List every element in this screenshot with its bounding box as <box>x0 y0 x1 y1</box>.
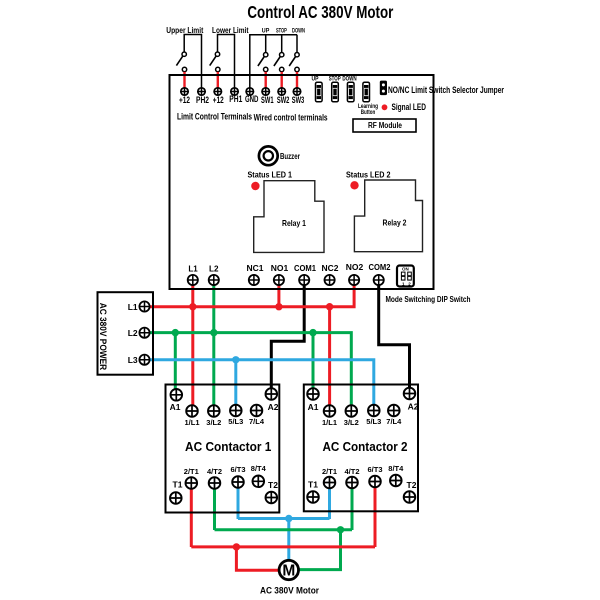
svg-text:Limit Control Terminals: Limit Control Terminals <box>177 112 252 122</box>
svg-text:Wired control terminals: Wired control terminals <box>254 113 328 123</box>
svg-text:7/L4: 7/L4 <box>249 417 265 426</box>
svg-text:Buzzer: Buzzer <box>280 152 300 161</box>
svg-text:RF Module: RF Module <box>368 121 402 130</box>
svg-text:L1: L1 <box>128 302 138 312</box>
svg-text:GND: GND <box>245 94 259 104</box>
svg-text:COM1: COM1 <box>294 263 316 273</box>
svg-text:COM2: COM2 <box>369 262 391 272</box>
svg-text:NO1: NO1 <box>271 263 289 273</box>
svg-text:L2: L2 <box>209 264 219 274</box>
svg-text:PH1: PH1 <box>229 94 242 104</box>
svg-text:1/L1: 1/L1 <box>322 418 337 427</box>
svg-text:4/T2: 4/T2 <box>345 467 360 476</box>
svg-text:SW2: SW2 <box>277 95 290 105</box>
svg-text:+12: +12 <box>179 95 190 105</box>
svg-text:+12: +12 <box>213 95 224 105</box>
svg-text:DOWN: DOWN <box>292 29 305 35</box>
svg-text:Status LED 2: Status LED 2 <box>346 170 391 180</box>
svg-text:AC Contactor 1: AC Contactor 1 <box>185 439 271 454</box>
svg-text:A1: A1 <box>170 402 181 412</box>
svg-text:L3: L3 <box>128 355 138 365</box>
svg-text:Upper Limit: Upper Limit <box>166 26 203 35</box>
svg-text:T1: T1 <box>173 480 183 490</box>
svg-text:T1: T1 <box>308 480 318 490</box>
svg-text:1/L1: 1/L1 <box>185 418 200 427</box>
svg-text:STOP: STOP <box>276 29 287 35</box>
svg-text:A1: A1 <box>308 402 319 412</box>
svg-text:SW1: SW1 <box>261 95 274 105</box>
svg-text:UP: UP <box>262 29 270 35</box>
svg-text:Status LED 1: Status LED 1 <box>248 170 293 180</box>
svg-text:L1: L1 <box>188 264 198 274</box>
svg-text:Relay 1: Relay 1 <box>282 218 306 228</box>
svg-text:2/T1: 2/T1 <box>184 467 199 476</box>
svg-text:Relay 2: Relay 2 <box>383 218 407 228</box>
svg-text:NO2: NO2 <box>346 262 364 272</box>
svg-text:7/L4: 7/L4 <box>386 417 402 426</box>
svg-text:6/T3: 6/T3 <box>231 465 246 474</box>
svg-text:Button: Button <box>361 110 376 116</box>
svg-text:SW3: SW3 <box>292 95 305 105</box>
svg-text:UP: UP <box>312 77 319 83</box>
svg-text:T2: T2 <box>407 480 417 490</box>
svg-text:STOP: STOP <box>329 77 341 83</box>
svg-text:Signal LED: Signal LED <box>392 102 427 112</box>
svg-text:NO/NC Limit Switch Selector Ju: NO/NC Limit Switch Selector Jumper <box>388 85 504 95</box>
svg-text:4/T2: 4/T2 <box>207 467 222 476</box>
svg-text:8/T4: 8/T4 <box>251 464 267 473</box>
svg-text:8/T4: 8/T4 <box>388 464 404 473</box>
svg-text:3/L2: 3/L2 <box>206 418 221 427</box>
svg-text:A2: A2 <box>408 402 419 412</box>
svg-text:5/L3: 5/L3 <box>366 417 381 426</box>
svg-text:Lower Limit: Lower Limit <box>212 26 249 35</box>
svg-text:M: M <box>282 563 295 580</box>
svg-text:3/L2: 3/L2 <box>344 418 359 427</box>
svg-text:2/T1: 2/T1 <box>322 467 337 476</box>
svg-text:A2: A2 <box>268 402 279 412</box>
svg-text:Mode Switching DIP Switch: Mode Switching DIP Switch <box>386 295 471 304</box>
svg-text:5/L3: 5/L3 <box>228 417 243 426</box>
svg-text:PH2: PH2 <box>196 95 209 105</box>
svg-text:ON: ON <box>402 267 409 272</box>
svg-text:AC 380V Motor: AC 380V Motor <box>260 586 319 597</box>
svg-text:DOWN: DOWN <box>342 77 356 83</box>
svg-text:AC Contactor 2: AC Contactor 2 <box>323 439 408 454</box>
svg-text:NC2: NC2 <box>322 263 339 273</box>
svg-text:T2: T2 <box>268 480 278 490</box>
svg-text:AC 380V POWER: AC 380V POWER <box>98 303 108 371</box>
svg-text:Control AC 380V Motor: Control AC 380V Motor <box>247 2 393 22</box>
svg-text:NC1: NC1 <box>247 263 264 273</box>
svg-text:6/T3: 6/T3 <box>368 465 383 474</box>
svg-text:L2: L2 <box>128 328 138 338</box>
